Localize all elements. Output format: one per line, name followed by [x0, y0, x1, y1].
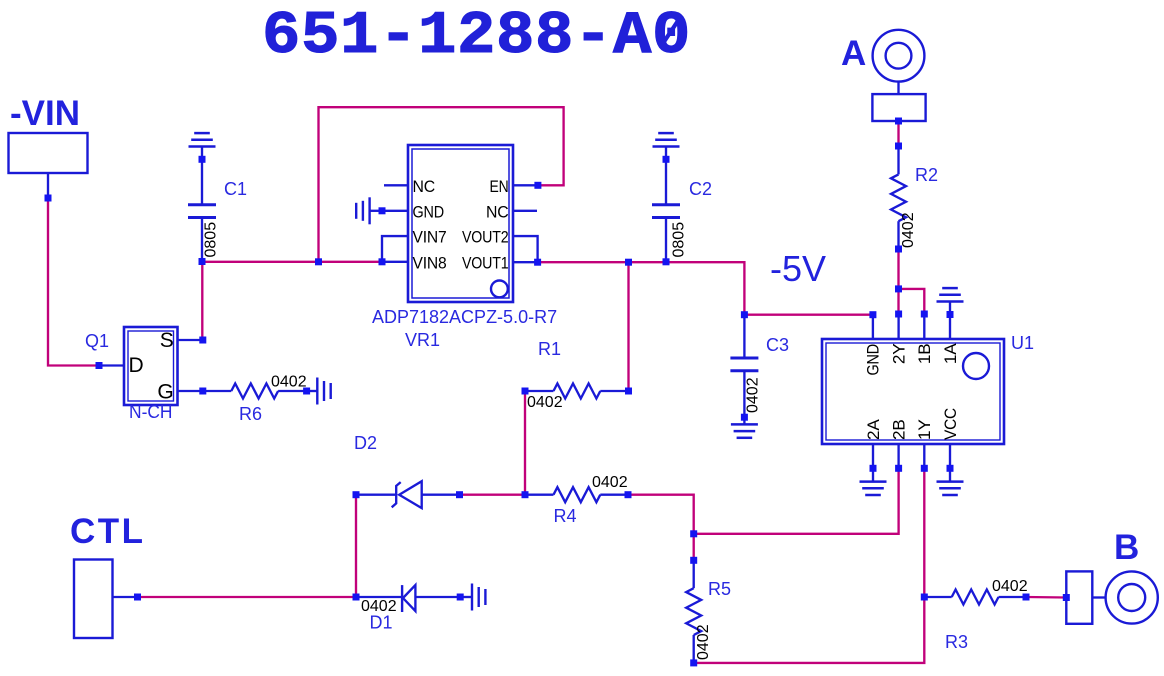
svg-text:0402: 0402: [271, 374, 307, 391]
svg-text:VR1: VR1: [405, 330, 440, 350]
svg-text:2Y: 2Y: [889, 344, 908, 365]
svg-text:C2: C2: [689, 179, 712, 199]
node CTL / D1 / D2 junction: [353, 594, 360, 601]
port -VIN: [9, 94, 88, 198]
node Q1 drain: [96, 362, 103, 369]
node U1 VCC pin: [947, 465, 954, 472]
node R2 bottom: [895, 246, 902, 253]
svg-text:N-CH: N-CH: [129, 402, 173, 422]
node U1 1B pin: [921, 311, 928, 318]
ground below U1 VCC: [937, 468, 964, 495]
pin NC left: [384, 184, 408, 186]
node C1 top pin: [199, 156, 206, 163]
svg-text:EN: EN: [490, 177, 509, 196]
node R4 left / R1 drop: [522, 491, 529, 498]
svg-text:1Y: 1Y: [915, 419, 934, 440]
ground below C3: [731, 424, 758, 437]
svg-text:1A: 1A: [941, 343, 960, 364]
svg-text:VCC: VCC: [941, 408, 960, 440]
wire C1 to Q1 source: [201, 261, 203, 340]
svg-text:R3: R3: [945, 632, 968, 652]
wire -VIN to Q1 drain: [48, 198, 99, 366]
node CTL pin: [134, 594, 141, 601]
node D1 right: [457, 594, 464, 601]
svg-text:D2: D2: [354, 433, 377, 453]
svg-text:NC: NC: [486, 202, 509, 221]
svg-text:VOUT2: VOUT2: [462, 228, 509, 247]
svg-text:0402: 0402: [592, 474, 628, 491]
node port A pin: [895, 118, 902, 125]
node R3 right: [1023, 594, 1030, 601]
resistor R4: [525, 487, 628, 502]
node D2 left: [353, 491, 360, 498]
wire EN loop: [319, 107, 564, 262]
ground right of R6: [307, 378, 331, 405]
svg-text:0805: 0805: [671, 222, 688, 258]
svg-text:GND: GND: [413, 202, 445, 221]
svg-text:C1: C1: [224, 179, 247, 199]
node VR1 VOUT1 pin: [534, 259, 541, 266]
svg-text:G: G: [157, 381, 173, 404]
svg-text:VIN7: VIN7: [413, 228, 447, 247]
svg-text:R1: R1: [538, 339, 561, 359]
node R5 top terminal: [690, 557, 697, 564]
node R1 right: [625, 388, 632, 395]
wire D2 to R4: [460, 494, 526, 496]
node R2 / 1B branch: [895, 285, 902, 292]
wire R3 to port B: [1026, 596, 1066, 599]
svg-text:A: A: [841, 34, 866, 73]
pin VOUT2: [513, 236, 538, 262]
pin 2A: [872, 444, 874, 468]
wire A to R2: [897, 121, 899, 146]
node VR1 EN pin: [534, 182, 541, 189]
svg-text:S: S: [160, 329, 174, 352]
node port B pin: [1063, 594, 1070, 601]
node C2 / -5V rail: [663, 258, 670, 265]
node Q1 source: [199, 337, 206, 344]
svg-text:0805: 0805: [203, 222, 220, 258]
svg-text:2A: 2A: [864, 419, 883, 440]
port CTL: [70, 512, 146, 638]
wire R4 to R5 node: [628, 495, 694, 534]
svg-text:0402: 0402: [527, 394, 563, 411]
svg-text:-5V: -5V: [770, 248, 826, 289]
node D2 right: [456, 491, 463, 498]
svg-text:NC: NC: [413, 177, 436, 196]
ground above U1 1A: [937, 288, 964, 314]
svg-text:CTL: CTL: [70, 512, 146, 551]
port B: [1066, 528, 1157, 624]
svg-text:R6: R6: [239, 404, 262, 424]
title 651-1288-A0: [262, 1, 691, 70]
wire branch to 1B: [899, 289, 925, 314]
node C3 top / -5V wire: [741, 311, 748, 318]
wire rail left (C1 to VIN8): [202, 261, 382, 263]
ground below U1 2A: [860, 468, 887, 495]
resistor R1: [525, 384, 629, 399]
ground right of D1: [460, 584, 485, 611]
wire CTL to D1/D2 node: [138, 596, 357, 598]
node C2 top pin: [663, 156, 670, 163]
pin VCC: [949, 444, 951, 468]
node U1 2Y pin: [895, 311, 902, 318]
svg-text:0402: 0402: [900, 212, 917, 248]
diode D1: [356, 585, 460, 612]
svg-text:2B: 2B: [889, 419, 908, 440]
node R5 bottom: [690, 659, 697, 666]
svg-text:R5: R5: [708, 579, 731, 599]
pin 1A: [949, 315, 951, 340]
svg-text:1B: 1B: [915, 344, 934, 365]
node R5 top / 2B wire: [690, 530, 697, 537]
wire R1 to R4/D2 node: [524, 391, 526, 495]
svg-text:C3: C3: [766, 335, 789, 355]
node U1 1Y pin: [921, 465, 928, 472]
node VR1 GND pin: [379, 207, 386, 214]
svg-text:GND: GND: [864, 344, 883, 376]
resistor R3: [924, 590, 1026, 605]
node C3 bottom pin: [741, 414, 748, 421]
resistor R2: [891, 146, 906, 249]
node C1 / -5V rail: [199, 258, 206, 265]
node U1 2B pin: [895, 465, 902, 472]
pin NC right: [513, 210, 537, 212]
svg-text:R4: R4: [554, 506, 577, 526]
pin 1Y: [923, 444, 925, 468]
pin EN: [513, 184, 538, 186]
node R6 right: [303, 388, 310, 395]
svg-text:651-1288-A0: 651-1288-A0: [262, 1, 691, 70]
pin 2B: [897, 444, 899, 468]
svg-text:VIN8: VIN8: [413, 253, 447, 272]
IC U1: [822, 314, 1004, 468]
wire R5 node to U1 2B: [694, 468, 899, 534]
svg-text:0402: 0402: [992, 578, 1028, 595]
node U1 2A pin: [870, 465, 877, 472]
capacitor C2: [652, 147, 680, 262]
node -5V rail / R1 branch: [625, 259, 632, 266]
node VR1 VIN8 pin: [379, 258, 386, 265]
node -5V rail / EN loop: [315, 258, 322, 265]
svg-text:VOUT1: VOUT1: [462, 253, 509, 272]
svg-text:-VIN: -VIN: [10, 94, 80, 133]
pin 2Y: [897, 314, 899, 339]
svg-text:Q1: Q1: [85, 331, 109, 351]
svg-text:0402: 0402: [695, 624, 712, 660]
svg-text:U1: U1: [1011, 333, 1034, 353]
pin 1B: [923, 314, 925, 339]
wire R5 to U1 1Y (bottom rail): [694, 468, 925, 663]
wire R2 to U1 2Y: [897, 249, 899, 314]
port A: [841, 30, 926, 121]
pin GND (U1): [872, 315, 874, 339]
node Q1 gate / R6 left: [199, 388, 206, 395]
ground above C2: [653, 133, 680, 146]
node U1 1A pin: [947, 311, 954, 318]
transistor Q1: [99, 327, 203, 405]
ground at VR1 GND pin: [356, 197, 382, 224]
regulator VR1: [382, 145, 538, 302]
wire rail right (VOUT1 to U1 GND): [538, 262, 873, 315]
wire D2 left vertical: [355, 495, 357, 597]
node -VIN pin: [45, 195, 52, 202]
node R1 left: [522, 388, 529, 395]
node R2 top: [895, 143, 902, 150]
wire rail to R1 (vertical drop): [627, 262, 629, 391]
ground above C1: [189, 133, 216, 146]
svg-text:ADP7182ACPZ-5.0-R7: ADP7182ACPZ-5.0-R7: [372, 307, 557, 327]
svg-text:D: D: [129, 354, 144, 377]
svg-text:B: B: [1114, 528, 1139, 567]
node R4 right: [625, 491, 632, 498]
pin GND: [382, 210, 408, 212]
resistor R5: [686, 534, 701, 663]
svg-text:0402: 0402: [745, 377, 762, 413]
node R3 left / 1Y wire: [921, 594, 928, 601]
svg-text:D1: D1: [370, 613, 393, 633]
node U1 GND pin: [869, 311, 876, 318]
pin VIN7: [382, 236, 408, 262]
capacitor C3: [730, 315, 758, 425]
diode D2 (zener): [356, 481, 460, 508]
svg-text:R2: R2: [915, 165, 938, 185]
capacitor C1: [188, 147, 216, 262]
resistor R6: [203, 384, 307, 399]
